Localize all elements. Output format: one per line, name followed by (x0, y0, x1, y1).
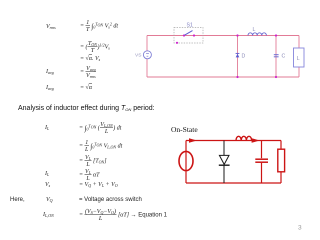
node junction bottom-diode (236, 76, 238, 78)
diode symbol (black, pointing down) (219, 155, 230, 165)
wire top net (red) (186, 140, 281, 142)
wire bottom net (red) (186, 182, 281, 184)
wire right branch (298, 36, 300, 78)
wire diode branch (237, 36, 239, 78)
inductor coil (red) (236, 136, 252, 140)
wire left branch (146, 36, 148, 78)
wire capacitor branch (275, 36, 277, 78)
source VS (143, 51, 151, 59)
wire diode branch (black) (223, 141, 225, 184)
svg-text:L: L (253, 27, 256, 33)
svg-text:D: D (242, 54, 246, 60)
svg-text:C: C (282, 54, 286, 60)
svg-text:VS: VS (135, 53, 141, 59)
diode D symbol (236, 53, 240, 57)
switch S1 contacts and blade (183, 31, 195, 37)
svg-text:L: L (297, 56, 300, 62)
wire capacitor branch (red) (261, 141, 263, 184)
source circle (red) (179, 151, 193, 170)
load resistor box (red) (278, 149, 285, 172)
node junction bottom-capacitor (275, 76, 277, 78)
inductor L coil (248, 33, 266, 36)
node junction top-diode (236, 34, 238, 36)
current arrow 1 (189, 138, 197, 143)
svg-text:S1: S1 (187, 23, 193, 29)
capacitor C symbol (274, 55, 279, 57)
wire left branch (red) (185, 141, 187, 184)
load L box (294, 48, 305, 67)
switch control pin node (176, 42, 178, 44)
capacitor plates (red) (255, 159, 268, 162)
node junction top-capacitor (275, 34, 277, 36)
wire top net (147, 35, 299, 37)
current arrow 2 (252, 138, 260, 143)
wire right branch (red) (280, 141, 282, 184)
switch S1 dashed box (174, 28, 203, 44)
wire bottom net (147, 76, 299, 78)
